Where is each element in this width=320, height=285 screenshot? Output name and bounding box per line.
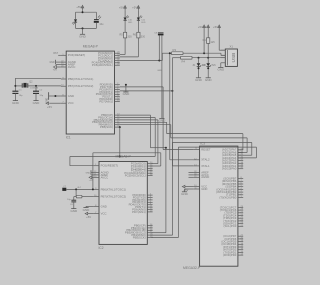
wire IC1 PB1 right xyxy=(120,117,155,119)
svg-text:PD7(AIN1): PD7(AIN1) xyxy=(99,99,113,103)
ground PD0 area xyxy=(123,92,131,96)
svg-text:1.8432M: 1.8432M xyxy=(30,88,39,90)
wire bus IC2 PB4 vertical xyxy=(172,143,174,236)
wire IC3 VCC xyxy=(185,186,193,188)
svg-text:R3: R3 xyxy=(173,48,177,52)
wire down to IC2 XTAL1 xyxy=(92,153,94,190)
svg-text:+5V: +5V xyxy=(89,180,93,182)
+5V supply xyxy=(119,5,127,10)
+5V supply xyxy=(198,25,206,30)
wire right drop to C2 xyxy=(35,86,37,91)
zener Z1 xyxy=(197,63,201,66)
+5V supply IC3 VCC xyxy=(182,185,188,192)
crystal Q3 at IC2 XTAL1 xyxy=(62,186,66,191)
LED LED3 power indicator xyxy=(72,16,77,24)
wire D+ jog down xyxy=(220,53,222,55)
svg-text:VCC: VCC xyxy=(68,101,74,105)
wire Z2 to ground xyxy=(207,66,209,78)
wire IC1 PB4 right xyxy=(120,124,171,126)
svg-text:MEGA8-P: MEGA8-P xyxy=(83,44,99,48)
wire IC2 VCC pin xyxy=(88,213,94,215)
svg-text:GND: GND xyxy=(181,192,189,196)
wire C6 to ground xyxy=(73,202,75,209)
wire PD0 area to ground xyxy=(125,85,127,92)
wire to IC2 PC6 reset xyxy=(70,165,94,167)
wire into IC3 PA7 stub xyxy=(238,149,243,151)
wire IC1 AREF xyxy=(56,64,61,66)
wire +5V to LED1 xyxy=(124,11,126,18)
wire IC3 GND pin xyxy=(185,188,194,190)
wire to Z1 xyxy=(198,58,200,64)
wire to C5 xyxy=(95,12,97,19)
svg-text:PB5(SCK): PB5(SCK) xyxy=(133,235,146,239)
ground C2 xyxy=(33,101,41,105)
capacitor C2 18p xyxy=(33,91,39,93)
resistor R4 68R xyxy=(181,56,193,63)
wire bus IC2 PB5 vertical xyxy=(177,147,179,237)
svg-text:GND: GND xyxy=(101,204,107,208)
svg-text:AVCC: AVCC xyxy=(101,175,109,179)
wire bus PD1 to IC3 RESET xyxy=(162,87,164,150)
wire down to IC2 PC6 xyxy=(69,157,71,166)
svg-text:GND: GND xyxy=(201,187,207,191)
svg-text:IC1: IC1 xyxy=(66,136,71,140)
wire +5V to LED2 xyxy=(137,11,139,18)
svg-text:PB7(XTAL2/TOSC2): PB7(XTAL2/TOSC2) xyxy=(101,195,127,199)
svg-text:1k5: 1k5 xyxy=(211,41,216,44)
svg-text:GND: GND xyxy=(157,70,162,72)
wire down to IC3 PA4 xyxy=(255,147,257,158)
wire top rail xyxy=(76,11,97,13)
connector X1 USB xyxy=(221,45,238,67)
wire to IC3 XTAL1 xyxy=(172,165,193,167)
IC IC3 MEGA32-P body xyxy=(183,141,244,269)
wire IC2 PC0 to bus xyxy=(152,163,158,165)
wire IC1 VCC pin xyxy=(49,102,61,104)
wire to R1 xyxy=(207,30,209,38)
svg-text:(RXD)PD0: (RXD)PD0 xyxy=(223,253,237,257)
wire left drop to C1 xyxy=(14,78,16,91)
wire R7 left xyxy=(74,196,77,198)
svg-text:330: 330 xyxy=(141,36,146,39)
wire R1 down to D- xyxy=(207,43,209,57)
svg-text:GND: GND xyxy=(123,92,131,96)
wire IC1 AVCC xyxy=(56,66,61,68)
junction crystal right xyxy=(35,85,37,87)
wire IC1 PD1 right xyxy=(120,86,163,88)
junction PB5 / reset run xyxy=(119,156,121,158)
wire to Z2 xyxy=(207,58,209,64)
IC IC1 MEGA8-P body xyxy=(61,44,120,139)
svg-text:X1: X1 xyxy=(230,45,234,49)
wire IC2 AVCC xyxy=(91,176,93,178)
+5V supply IC1 AVCC xyxy=(53,65,56,68)
capacitor C8 xyxy=(154,32,163,35)
junction zener Z1 tap xyxy=(198,57,200,59)
junction IC1 PB5 stub xyxy=(119,126,121,128)
wire LED3 cathode to bottom rail xyxy=(75,22,77,28)
wire VBUS into USB xyxy=(219,49,225,51)
svg-text:+5V: +5V xyxy=(213,25,218,29)
wire D- to R2usb xyxy=(172,57,180,59)
wire LED1 to R5 xyxy=(124,20,126,32)
svg-text:R4: R4 xyxy=(182,59,186,63)
wire IC1 PB2 right xyxy=(120,119,158,121)
junction top rail xyxy=(82,11,84,13)
LED LED2 xyxy=(137,16,142,21)
wire bottom rail xyxy=(76,27,97,29)
wire bus PB1 vertical xyxy=(154,118,156,157)
ground IC1 sideways xyxy=(46,92,48,103)
ground Z1 xyxy=(195,78,203,82)
wire IC2 XTAL1 row xyxy=(66,188,93,190)
ground top-left xyxy=(79,34,87,38)
wire down to IC3 PA6 xyxy=(246,138,248,153)
wire C1 to ground xyxy=(14,93,16,100)
svg-text:PD7(AIN1): PD7(AIN1) xyxy=(132,210,146,214)
svg-text:GND: GND xyxy=(83,208,91,212)
ground IC2 AGND sideways xyxy=(90,170,92,175)
wire IC2 AGND xyxy=(91,172,93,174)
crystal Q2 xyxy=(22,81,38,90)
svg-text:PC6(/RESET): PC6(/RESET) xyxy=(68,53,85,57)
wire Z1 to ground xyxy=(198,66,200,78)
wire XTAL1 top run xyxy=(15,77,61,79)
svg-text:+5V: +5V xyxy=(132,5,137,9)
capacitor C6 10p xyxy=(67,199,76,206)
wire IC1 reset stub xyxy=(58,54,61,56)
wire into IC3 PA4 stub xyxy=(238,157,256,159)
wire R5 down to PC0 net xyxy=(124,38,126,55)
wire pullup vertical xyxy=(203,30,205,53)
junction pullup tap xyxy=(203,52,205,54)
wire USB shield to ground xyxy=(220,63,222,68)
wire IC1 PB3 right xyxy=(120,121,167,123)
junction PD0 ground tap xyxy=(125,84,127,86)
+5V supply xyxy=(213,25,221,30)
svg-text:USB: USB xyxy=(231,53,237,63)
svg-text:PB5(SCK): PB5(SCK) xyxy=(100,125,113,129)
junction Z1 bottom xyxy=(198,67,200,69)
wire C2 to ground xyxy=(35,93,37,100)
wire D+ into USB xyxy=(221,54,225,56)
resistor R6 330R xyxy=(133,32,146,38)
wire bus PB0 horizontal xyxy=(151,147,166,149)
wire IC3 AVCC xyxy=(189,174,194,176)
svg-text:GND: GND xyxy=(12,101,20,105)
wire C5 to bottom rail xyxy=(95,23,97,29)
wire IC1 GND pin xyxy=(49,95,61,97)
wire IC2 GND drop xyxy=(85,206,87,207)
wire down to IC3 PA5 xyxy=(251,143,253,156)
wire +5V to rail xyxy=(82,10,84,12)
wire down to IC3 PA7 xyxy=(242,134,244,150)
junction Z2 bottom xyxy=(207,67,209,69)
wire IC3 AREF xyxy=(189,172,194,174)
svg-text:GND: GND xyxy=(205,78,213,82)
svg-text:RESET: RESET xyxy=(201,147,211,151)
ground IC2 xyxy=(83,208,91,212)
wire bus vertical to IC2 PC1 xyxy=(160,153,162,166)
capacitor C5 10u electrolytic xyxy=(94,16,104,26)
junction bottom rail xyxy=(82,27,84,29)
wire R6 down to PC1 net xyxy=(137,38,139,57)
svg-text:+5V: +5V xyxy=(76,5,81,9)
wire bus PB0 vertical xyxy=(150,115,152,148)
wire bus PB3 vertical xyxy=(166,122,168,133)
svg-text:IC2: IC2 xyxy=(99,246,104,250)
LED LED1 xyxy=(124,16,129,21)
wire to LED3 anode xyxy=(75,12,77,19)
svg-text:XTAL1: XTAL1 xyxy=(201,164,210,168)
wire IC2 GND pin xyxy=(86,205,94,207)
wire run to IC3 PA5 xyxy=(173,142,252,144)
svg-text:GND: GND xyxy=(33,101,41,105)
+5V supply IC2 AVCC xyxy=(89,176,92,179)
ground C6 xyxy=(70,209,78,213)
svg-text:GND: GND xyxy=(86,172,91,174)
ground IC1 AGND sideways xyxy=(55,60,57,65)
wire IC2 AREF xyxy=(91,174,93,176)
wire IC2 PB5 right xyxy=(152,237,179,239)
wire bus D+ vertical xyxy=(169,53,171,160)
svg-text:GND: GND xyxy=(70,209,78,213)
svg-text:LED: LED xyxy=(128,22,133,24)
wire IC1 PB0 right xyxy=(120,114,151,116)
svg-text:PB6(XTAL1/TOSC1): PB6(XTAL1/TOSC1) xyxy=(101,187,127,191)
wire down to C6 xyxy=(73,197,75,200)
ground IC3 xyxy=(181,192,189,196)
svg-text:MEGA32-P: MEGA32-P xyxy=(183,266,201,270)
wire into IC3 PA6 stub xyxy=(238,152,247,154)
wire run to IC3 PA7 xyxy=(167,133,243,135)
wire run above IC2 upper xyxy=(93,152,161,154)
wire IC2 PB3 right xyxy=(152,232,166,234)
wire D+ toward USB xyxy=(183,52,221,54)
ground USB xyxy=(217,67,225,71)
wire C8 right lead to ground xyxy=(161,35,163,118)
wire IC1 PB5 down xyxy=(119,127,121,156)
junction PD2 / D- vertical xyxy=(171,90,173,92)
svg-text:GND: GND xyxy=(49,62,54,64)
junction D+ vertical xyxy=(169,52,171,54)
junction XTAL1 bus tap xyxy=(92,188,94,190)
resistor R5 330R xyxy=(119,32,132,38)
svg-text:IC3: IC3 xyxy=(200,141,205,145)
resistor R7 on XTAL2 row xyxy=(76,187,82,198)
svg-text:GND: GND xyxy=(79,35,87,39)
wire IC2 PC1 to bus xyxy=(152,165,161,167)
svg-text:LED: LED xyxy=(141,22,146,24)
svg-text:(ADC0)PA0: (ADC0)PA0 xyxy=(222,167,237,171)
wire IC3 GND drop xyxy=(184,189,186,192)
wire crystal to IC1 PB7 xyxy=(28,85,61,87)
wire run to IC3 PA4 xyxy=(178,146,256,148)
svg-text:PC6(/RESET): PC6(/RESET) xyxy=(101,164,118,168)
wire run to IC3 PA6 xyxy=(171,137,247,139)
capacitor C1 18p xyxy=(12,91,18,93)
svg-text:(SCL)PC0: (SCL)PC0 xyxy=(224,224,237,228)
junction zener Z2 tap xyxy=(207,57,209,59)
svg-text:GND: GND xyxy=(195,78,203,82)
svg-text:VCC: VCC xyxy=(101,212,107,216)
junction PB0 / IC2 PB3 bus xyxy=(165,147,167,149)
+5V supply xyxy=(202,25,210,30)
wire IC3 RESET left xyxy=(163,149,193,151)
svg-text:PB7(XTAL2/TOSC2): PB7(XTAL2/TOSC2) xyxy=(68,84,94,88)
svg-text:GND: GND xyxy=(68,94,74,98)
wire into IC3 PA5 stub xyxy=(238,154,252,156)
wire LED2 to R6 xyxy=(137,20,139,32)
svg-text:(T0/XCK)PB0: (T0/XCK)PB0 xyxy=(219,195,236,199)
svg-text:+5V: +5V xyxy=(47,105,52,109)
svg-text:AVCC: AVCC xyxy=(68,65,76,69)
wire PC2 jog up xyxy=(161,53,163,60)
svg-text:+5V: +5V xyxy=(53,70,58,72)
ground Z2 xyxy=(205,78,213,82)
junction C8 tap xyxy=(158,60,160,62)
junction crystal left xyxy=(14,85,16,87)
+5V supply xyxy=(76,5,84,10)
svg-text:+5V: +5V xyxy=(119,5,124,9)
+5V supply xyxy=(132,5,140,10)
ground C8 xyxy=(159,118,167,122)
svg-text:3V6: 3V6 xyxy=(211,64,216,67)
svg-text:PC5(ADC5/SCL): PC5(ADC5/SCL) xyxy=(125,174,146,178)
wire IC1 PC1 to LED2 branch xyxy=(120,56,139,58)
svg-text:PB6(XTAL1/TOSC1): PB6(XTAL1/TOSC1) xyxy=(68,77,94,81)
svg-text:RST: RST xyxy=(53,53,58,55)
svg-text:PC5(ADC5/SCL): PC5(ADC5/SCL) xyxy=(92,63,113,67)
svg-text:AGND: AGND xyxy=(201,175,209,179)
svg-text:+5V: +5V xyxy=(86,215,91,219)
IC IC2 MEGA8-P body xyxy=(94,155,153,250)
wire C8 left lead down xyxy=(158,35,160,60)
+5V supply IC2 VCC xyxy=(85,212,91,219)
junction XTAL1 node xyxy=(75,188,77,190)
wire bus PB2 vertical xyxy=(157,120,159,164)
wire XTAL node down xyxy=(75,189,77,196)
wire IC3 AGND xyxy=(189,176,194,178)
+5V supply IC1 VCC xyxy=(46,102,52,109)
wire bus D- vertical xyxy=(171,58,173,166)
wire VBUS vertical xyxy=(218,30,220,50)
wire IC1 AGND xyxy=(56,61,61,63)
wire bus PB4 vertical xyxy=(170,125,172,138)
wire run above IC2 xyxy=(70,156,155,158)
resistor R3 68R xyxy=(172,48,184,55)
svg-text:GND: GND xyxy=(217,68,225,72)
svg-text:10u: 10u xyxy=(99,23,104,26)
wire IC1 PC0 to LED1 branch xyxy=(120,54,125,56)
wire bus IC2 PB3 vertical xyxy=(165,148,167,233)
svg-text:+5V: +5V xyxy=(202,25,207,29)
resistor R1 1k5 xyxy=(203,38,216,44)
ground C1 xyxy=(12,101,20,105)
wire R7 to IC2 PB7 xyxy=(82,196,94,198)
svg-text:XTAL2: XTAL2 xyxy=(201,158,210,162)
wire to IC3 XTAL2 xyxy=(170,159,194,161)
wire to ground xyxy=(82,28,84,34)
svg-text:330: 330 xyxy=(128,36,133,39)
wire IC1 PD2 right xyxy=(120,90,173,92)
wire crystal left lead xyxy=(15,85,22,87)
zener Z2 xyxy=(206,63,210,66)
junction IC1 GND wire xyxy=(54,95,56,97)
wire D- to USB xyxy=(192,57,225,59)
wire IC2 PB4 right xyxy=(152,234,173,236)
wire to R3 xyxy=(162,52,171,54)
wire IC1 PC2 (USB data) right xyxy=(120,60,163,62)
